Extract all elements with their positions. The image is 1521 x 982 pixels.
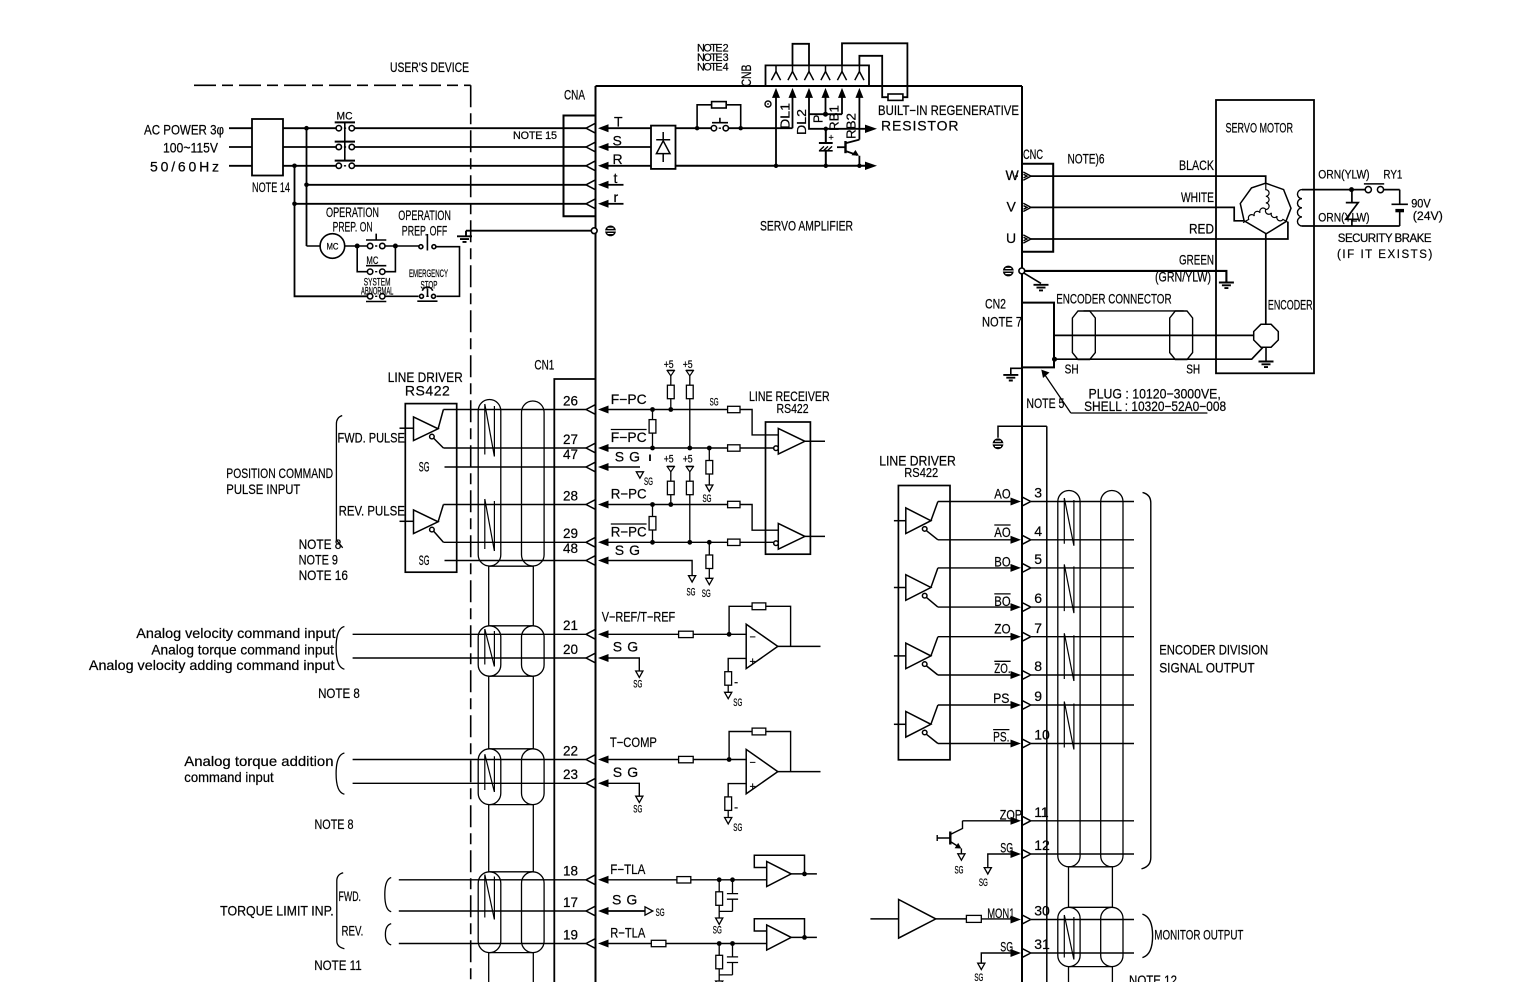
cable capsule tcomp left	[478, 749, 501, 805]
pin 21 arrows	[586, 630, 609, 639]
wire F-PC from driver	[443, 409, 586, 411]
node dots DC link	[774, 127, 862, 168]
svg-text:RS422: RS422	[405, 383, 450, 399]
label ZO-bar	[994, 660, 1010, 676]
pin 3 arrows	[1011, 497, 1031, 506]
servo amplifier outline right edge	[1021, 86, 1023, 982]
svg-text:NOTE)6: NOTE)6	[1068, 151, 1105, 167]
wire R-PC from driver	[443, 504, 586, 506]
arrow transistor emitter	[852, 150, 859, 156]
cable capsule monitor right	[1101, 907, 1123, 966]
svg-text:MONITOR OUTPUT: MONITOR OUTPUT	[1154, 927, 1243, 943]
svg-text:RB1: RB1	[828, 105, 842, 131]
wire S into rectifier	[609, 146, 652, 148]
op-amp T-COMP	[746, 749, 820, 793]
pin 6 arrows	[1011, 603, 1031, 612]
wire V-REF inside amp	[609, 633, 747, 635]
cable neck pulse to analog	[489, 566, 534, 626]
svg-text:NOTE 5: NOTE 5	[1026, 395, 1064, 411]
switch MC auxiliary latch contact	[357, 246, 395, 274]
svg-text:17: 17	[563, 894, 578, 910]
wire PS to pin	[938, 704, 1011, 706]
wire pin20 user side	[353, 657, 586, 659]
cable capsule encoder left	[1058, 491, 1080, 867]
svg-text:NOTE 9: NOTE 9	[299, 552, 339, 568]
pin 17 arrows	[586, 906, 609, 915]
wire MC coil to PREP.ON contact	[307, 245, 368, 247]
wire pin23 user side	[353, 782, 586, 784]
svg-text:NOTE 14: NOTE 14	[252, 179, 290, 195]
svg-text:SG: SG	[633, 803, 642, 815]
svg-text:AC POWER 3φ: AC POWER 3φ	[144, 122, 224, 138]
wire AO to pin	[938, 501, 1011, 503]
wire pin17 user side	[399, 910, 586, 912]
svg-text:AO: AO	[994, 486, 1010, 502]
wire R into rectifier	[609, 165, 652, 167]
rectifier bridge box	[651, 126, 676, 169]
svg-text:NOTE 11: NOTE 11	[314, 957, 362, 973]
svg-text:50/60Hz: 50/60Hz	[150, 159, 219, 175]
pin CNB 5 RB1 arrows	[837, 65, 846, 98]
wire CNB pin1 down to bottom bus	[775, 98, 777, 166]
wire SG pin 31 with ground	[978, 953, 1011, 970]
resistor series F-PC	[728, 406, 740, 412]
svg-text:REV.: REV.	[342, 923, 364, 939]
svg-text:SG: SG	[713, 925, 722, 937]
wire PREP.OFF to emergency stop loop	[436, 247, 460, 297]
svg-text:29: 29	[563, 525, 578, 541]
svg-text:NOTE 12: NOTE 12	[1129, 972, 1177, 982]
svg-text:DL2: DL2	[795, 109, 809, 135]
cable capsule tla right	[522, 872, 545, 953]
svg-text:CNC: CNC	[1023, 146, 1043, 162]
wire R-TLA inside amp	[609, 943, 767, 945]
svg-text:10: 10	[1034, 727, 1050, 743]
svg-text:NOTE 8: NOTE 8	[318, 685, 360, 701]
svg-text:+5: +5	[664, 453, 674, 465]
pin CNB 4 P arrows	[821, 65, 830, 98]
filter RC F-TLA	[716, 877, 738, 918]
resistor plus input to SG V-REF	[725, 658, 747, 698]
svg-text:SG: SG	[955, 865, 964, 877]
svg-text:100~115V: 100~115V	[163, 140, 219, 156]
connector CNA box	[564, 116, 596, 217]
svg-text:F−PC: F−PC	[611, 391, 647, 407]
wire pin 5 through connector	[1031, 567, 1134, 569]
pullup +5 F-PC	[667, 370, 675, 412]
twist mark encoder pair 637	[1064, 633, 1074, 681]
op-amp V-REF	[746, 624, 820, 668]
svg-text:+5: +5	[683, 359, 693, 371]
wire brake top ORN	[1302, 189, 1400, 191]
cable capsule monitor left	[1058, 907, 1080, 966]
transistor regen IGBT	[837, 98, 859, 166]
svg-text:CNB: CNB	[738, 65, 754, 87]
ground chassis below PE right	[1024, 273, 1049, 290]
pin 48 arrows	[586, 556, 609, 565]
svg-text:NOTE 4: NOTE 4	[697, 62, 729, 74]
svg-text:BO: BO	[994, 553, 1010, 569]
wire SG 47 stub and ground	[609, 467, 644, 478]
wire T into rectifier	[609, 127, 652, 129]
label BO-bar	[994, 593, 1010, 609]
brace monitor output	[1142, 914, 1152, 957]
wire tap vertical to MC coil	[306, 128, 308, 246]
svg-text:20: 20	[563, 641, 578, 657]
wire pin 9 through connector	[1031, 704, 1134, 706]
svg-text:S: S	[613, 132, 622, 148]
pin 27 arrows	[586, 443, 609, 452]
svg-text:T: T	[614, 114, 623, 130]
svg-text:W: W	[1006, 167, 1020, 183]
user's device boundary dash-dot horizontal	[194, 84, 471, 86]
pin 5 arrows	[1011, 563, 1031, 572]
wire brake bottom ORN	[1302, 225, 1400, 227]
earth symbol circled FG	[993, 438, 1004, 449]
servo motor box	[1216, 100, 1314, 373]
wire regen loop inner from RB2	[859, 56, 888, 97]
wire F-PC-bar inside amp	[609, 447, 774, 449]
buffer encoder driver BO	[894, 568, 938, 607]
cable neck tla bottom	[489, 953, 534, 982]
wire CNB pin3 down through P bus	[809, 98, 866, 129]
wire PREP.ON to PREP.OFF	[385, 245, 419, 247]
pin r arrows	[586, 199, 609, 208]
wire pin19 user side	[399, 943, 586, 945]
wire AO-bar to pin	[938, 539, 1011, 541]
wire left rail to bottom row	[295, 166, 369, 296]
svg-text:PREP. OFF: PREP. OFF	[402, 223, 448, 239]
wire SG 48 stub and ground	[609, 561, 696, 583]
resistor series V-REF	[679, 631, 694, 637]
twist mark tla pair	[485, 875, 495, 920]
user's device boundary dash-dot vertical	[470, 85, 472, 982]
resistor terminator F-PC pair	[649, 407, 656, 450]
arrow P bus to regen resistor	[865, 125, 877, 133]
svg-text:V: V	[1007, 198, 1017, 214]
pin 18 arrows	[586, 875, 609, 884]
contact gap dots	[375, 128, 721, 296]
pin 4 arrows	[1011, 535, 1031, 544]
twist mark monitor pair	[1064, 915, 1074, 960]
pin 11 arrows	[1011, 816, 1031, 825]
buffer monitor MON1	[870, 900, 966, 939]
pin t arrows	[586, 180, 609, 189]
ground GREEN wire	[1219, 283, 1234, 289]
svg-text:6: 6	[1034, 590, 1042, 606]
pin 30 arrows	[1011, 915, 1031, 924]
svg-text:RS422: RS422	[904, 466, 938, 480]
pin CNB 6 RB2 arrows	[855, 65, 864, 98]
svg-text:47: 47	[563, 446, 578, 462]
shield symbol SH 2	[1170, 311, 1193, 360]
twist mark encoder pair 568	[1064, 564, 1074, 613]
node dot right of PREP.ON	[393, 244, 398, 249]
resistor series R-PC	[728, 501, 740, 507]
twist mark encoder pair 705	[1064, 702, 1074, 750]
pin 26 arrows	[586, 405, 609, 414]
pullup +5 R-PC	[667, 466, 675, 507]
cable neck encoder to monitor	[1069, 867, 1113, 908]
wire BO-bar to pin	[938, 606, 1011, 608]
svg-text:NOTE 8: NOTE 8	[299, 536, 342, 552]
svg-text:r: r	[614, 189, 619, 205]
svg-text:BO: BO	[994, 593, 1010, 609]
buffer follower R-TLA	[754, 919, 817, 950]
wire AC phase line 2	[229, 146, 586, 148]
svg-text:SERVO AMPLIFIER: SERVO AMPLIFIER	[760, 217, 853, 233]
svg-text:GREEN: GREEN	[1179, 252, 1214, 268]
svg-text:26: 26	[563, 392, 578, 408]
svg-text:3: 3	[1034, 485, 1042, 501]
pin CNB 1 arrows	[771, 65, 780, 98]
svg-text:Analog velocity adding command: Analog velocity adding command input	[89, 657, 335, 673]
line driver RS422 box left	[405, 404, 456, 573]
svg-text:FWD.: FWD.	[339, 888, 362, 904]
svg-text:SERVO MOTOR: SERVO MOTOR	[1226, 119, 1294, 135]
svg-text:command input: command input	[184, 769, 274, 785]
pin V chevrons	[1023, 203, 1031, 211]
resistor built-in regenerative	[888, 94, 903, 100]
brace hook FWD tla	[385, 878, 391, 912]
svg-text:+: +	[750, 656, 756, 668]
wire pin 8 through connector	[1031, 674, 1134, 676]
svg-text:F−TLA: F−TLA	[610, 861, 646, 877]
buffer encoder driver ZO	[894, 637, 938, 675]
svg-text:SH: SH	[1065, 363, 1079, 377]
label F-PC-bar	[611, 429, 647, 445]
svg-text:23: 23	[563, 766, 578, 782]
resistor series R-PC-bar	[728, 539, 740, 545]
svg-text:R: R	[613, 151, 623, 167]
wire encoder cable bottom	[1054, 347, 1263, 359]
svg-text:R−PC: R−PC	[611, 523, 647, 539]
svg-text:t: t	[614, 170, 618, 186]
buffer follower F-TLA	[754, 855, 817, 886]
svg-text:CNA: CNA	[564, 87, 585, 103]
svg-text:PREP. ON: PREP. ON	[333, 218, 373, 234]
pullup +5 F-PC-bar	[686, 370, 694, 450]
wire pin 31 through connector	[1031, 952, 1134, 954]
svg-text:BUILT−IN REGENERATIVE: BUILT−IN REGENERATIVE	[878, 102, 1019, 118]
wire regen loop outer from RB1	[842, 43, 907, 97]
line driver RS422 box right	[898, 486, 950, 760]
svg-text:NOTE 15: NOTE 15	[513, 130, 557, 142]
svg-text:F−PC: F−PC	[611, 429, 647, 445]
resistor feedback T-COMP	[727, 728, 791, 772]
svg-text:MON1: MON1	[987, 905, 1014, 921]
brace encoder division output	[1142, 493, 1151, 869]
svg-text:5: 5	[1034, 551, 1042, 567]
twist mark analog pair	[485, 629, 495, 667]
svg-text:31: 31	[1034, 936, 1050, 952]
svg-text:ENCODER CONNECTOR: ENCODER CONNECTOR	[1056, 290, 1171, 306]
connector CN1 left column box	[554, 379, 595, 982]
motor winding top	[1266, 183, 1269, 209]
wire r feed line	[295, 203, 587, 205]
svg-text:SG: SG	[1000, 840, 1013, 856]
wire ZO to pin	[938, 636, 1011, 638]
node dot cable shield at CN2	[1052, 357, 1057, 362]
wire SG driver lower	[445, 560, 587, 562]
brace analog velocity inputs	[336, 627, 344, 670]
svg-text:NOTE 16: NOTE 16	[299, 567, 349, 583]
pin 28 arrows	[586, 500, 609, 509]
pin CNB 3 DL2 arrows	[804, 65, 813, 98]
svg-text:SG: SG	[419, 459, 430, 475]
svg-text:P: P	[812, 115, 826, 123]
buffer encoder driver PS	[894, 705, 938, 744]
ground SG R-TLA filter clipped	[716, 981, 723, 982]
svg-text:27: 27	[563, 431, 578, 447]
node dot left of PREP.ON	[355, 244, 360, 249]
pin 23 arrows	[586, 779, 609, 788]
svg-text:U: U	[1006, 230, 1016, 246]
wire pin 7 through connector	[1031, 636, 1134, 638]
svg-text:PS: PS	[993, 690, 1009, 706]
pin 12 arrows	[1011, 849, 1031, 858]
svg-text:RS422: RS422	[777, 402, 809, 416]
ground CN2 shell	[1003, 368, 1022, 380]
cable neck tcomp to tla	[489, 805, 534, 872]
svg-text:STOP: STOP	[421, 279, 438, 291]
svg-text:SG: SG	[1000, 939, 1013, 955]
buffer encoder driver AO	[894, 502, 938, 540]
twist mark F-PC pair	[485, 404, 495, 457]
svg-text:SG: SG	[419, 552, 430, 568]
buffer receiver R-PC	[774, 524, 825, 550]
node dot tie bus	[823, 112, 828, 117]
svg-text:Analog torque command input: Analog torque command input	[151, 641, 334, 657]
pin 7 arrows	[1011, 632, 1031, 641]
svg-text:ENCODER: ENCODER	[1268, 296, 1313, 312]
resistor MON1 output	[966, 915, 981, 922]
filter RC R-TLA	[716, 941, 738, 981]
terminal screw circle near CNB	[765, 101, 771, 107]
shield symbol SH 1	[1072, 311, 1095, 360]
svg-text:+5: +5	[664, 359, 674, 371]
svg-text:MC: MC	[337, 111, 353, 123]
svg-text:FWD. PULSE: FWD. PULSE	[338, 430, 405, 446]
wire SG pin 12 with ground	[984, 854, 1011, 874]
svg-text:SG: SG	[974, 972, 983, 982]
switch OPERATION PREP.OFF contact	[419, 234, 436, 251]
svg-text:19: 19	[563, 926, 578, 942]
svg-text:R−TLA: R−TLA	[610, 925, 646, 941]
wire ZO-bar to pin	[938, 674, 1011, 676]
brace torque limit inputs	[337, 873, 345, 949]
svg-text:SG: SG	[644, 476, 653, 488]
pin 9 arrows	[1011, 700, 1031, 709]
pin R arrows	[586, 161, 609, 170]
wire R-PC inside amp	[609, 505, 779, 531]
svg-text:SG: SG	[733, 697, 742, 709]
svg-text:NOTE 8: NOTE 8	[315, 816, 354, 832]
pin W chevrons	[1015, 172, 1031, 180]
arrow ZOP emitter	[955, 843, 962, 849]
resistor series F-PC-bar	[728, 445, 740, 451]
svg-text:PS.: PS.	[993, 729, 1009, 745]
label AO-bar	[994, 524, 1010, 540]
svg-text:ABNORMAL: ABNORMAL	[361, 285, 393, 297]
wire R-PC-bar from driver	[443, 541, 586, 543]
capacitor main DC link	[819, 129, 833, 166]
switch OPERATION PREP.ON contact	[366, 234, 386, 249]
wire rectifier top output bus	[676, 127, 793, 129]
ground PE stub and bars	[457, 231, 472, 242]
arrow bottom bus to regen resistor	[865, 162, 877, 170]
switch SYSTEM ABNORMAL contact	[366, 294, 419, 302]
svg-text:12: 12	[1034, 837, 1050, 853]
svg-text:+5: +5	[683, 453, 693, 465]
svg-text:SG: SG	[687, 587, 696, 599]
brace analog torque addition input	[336, 753, 344, 794]
node junction dots on phase taps	[292, 126, 309, 206]
wire pin 3 through connector	[1031, 501, 1134, 503]
svg-text:ZO.: ZO.	[994, 660, 1010, 676]
svg-text:SG: SG	[733, 822, 742, 834]
ground SG F-TLA filter	[716, 918, 723, 924]
svg-text:22: 22	[563, 742, 578, 758]
svg-text:USER'S DEVICE: USER'S DEVICE	[390, 59, 469, 75]
contactor MC main contacts	[335, 122, 355, 168]
wire pin18 user side	[399, 879, 586, 881]
buffer REV pulse driver	[400, 505, 444, 543]
svg-text:−: −	[750, 757, 756, 769]
wire FG branch to column	[998, 426, 1047, 438]
wire R-PC-bar inside amp	[609, 541, 774, 543]
node dots bypass	[695, 126, 743, 130]
svg-text:MC: MC	[327, 242, 339, 252]
connector CN2 box	[1022, 303, 1054, 368]
cable capsule pulse right	[522, 401, 545, 566]
battery 90V	[1392, 190, 1408, 226]
wire F-TLA inside amp	[609, 879, 767, 881]
svg-text:(24V): (24V)	[1413, 211, 1443, 223]
svg-text:REV. PULSE: REV. PULSE	[339, 503, 405, 519]
wire AC phase line 3	[229, 165, 586, 167]
twist mark tcomp pair	[485, 754, 495, 792]
svg-text:SG: SG	[710, 397, 719, 409]
wire t feed line	[307, 184, 587, 186]
wire jumper DL1-DL2 above CNB	[793, 44, 810, 66]
wire W BLACK	[1031, 176, 1266, 183]
svg-text:EMERGENCY: EMERGENCY	[409, 268, 448, 280]
motor winding left	[1243, 208, 1266, 223]
svg-text:WHITE: WHITE	[1181, 189, 1214, 205]
twist mark R-PC pair	[485, 499, 495, 551]
svg-text:ORN(YLW): ORN(YLW)	[1318, 213, 1369, 225]
svg-text:SG: SG	[703, 493, 712, 505]
wire CNB pin2 down to relay bus	[792, 98, 794, 129]
svg-text:4: 4	[1034, 523, 1042, 539]
svg-text:(GRN/YLW): (GRN/YLW)	[1155, 269, 1211, 285]
wire GREEN ground	[1025, 271, 1227, 283]
ground SG ZOP emitter	[958, 849, 965, 861]
wire pin 30 through connector	[1031, 919, 1134, 921]
pin 20 arrows	[586, 653, 609, 662]
wire pin 11 through connector	[1031, 820, 1134, 822]
svg-text:SG: SG	[979, 877, 988, 889]
pullup +5 R-PC-bar	[686, 466, 694, 544]
svg-text:RESISTOR: RESISTOR	[881, 117, 959, 133]
svg-text:POSITION COMMAND: POSITION COMMAND	[226, 465, 333, 481]
cable capsule tla left	[478, 872, 501, 953]
svg-text:7: 7	[1034, 620, 1042, 636]
svg-text:MC: MC	[366, 255, 378, 267]
wire F-PC inside amp	[609, 410, 779, 435]
wire CNB P-RB1 tie bus	[809, 98, 842, 115]
